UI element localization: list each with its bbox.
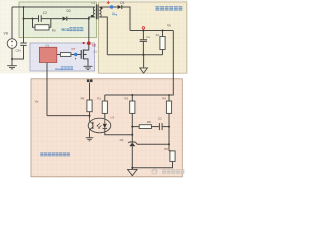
svg-text:R0: R0 [52,29,56,33]
wire U1 to R7 [57,54,61,56]
resistor R4 [162,97,171,114]
node red dot at drain [87,41,91,45]
wire MOSFET source to ground [83,59,88,66]
capacitor C1 [158,116,162,130]
capacitor C0 [140,35,151,42]
svg-text:Vo: Vo [167,24,171,28]
wire RL top [162,31,164,37]
light arrows [97,123,102,128]
output section box (tan) [99,2,187,73]
svg-text:L1: L1 [92,1,96,5]
svg-text:RL: RL [156,33,160,37]
ground (MOSFET source, bar style) [84,66,93,69]
wire output top rail [130,30,173,32]
ground (opto emitter, bar style) [86,138,94,141]
wire R8 branch left [132,126,139,128]
svg-text:R4: R4 [162,97,166,101]
wire snubber horizontal [24,18,39,20]
wire D1 cathode to output top rail [122,7,130,31]
wire output ground stem [143,55,145,68]
svg-text:RCD: RCD [62,28,70,32]
resistor R7 (gate) [60,47,75,57]
wire C2 to D0 [41,18,62,20]
MOSFET Q1 [81,49,89,59]
schematic sheet background (cream grid) [0,0,188,74]
wire RL bottom [162,50,164,55]
probe red mark below gate [75,58,77,60]
resistor R0 [35,25,56,33]
RCD snubber section box (green) [19,2,97,38]
svg-text:R7: R7 [72,47,76,51]
svg-text:R1: R1 [97,97,101,101]
wire transformer secondary bottom to ground rail [99,17,107,55]
wire VS plus lead [11,7,13,39]
wire C0 bottom [142,42,144,55]
wire VS minus lead [11,48,13,59]
wire R1 top [104,95,106,101]
svg-text:R5: R5 [164,147,168,151]
watermark logo and text [152,169,185,174]
wire R4 bottom to R5 top [169,113,173,150]
svg-text:M1: M1 [92,44,97,48]
label 电源输出电路 [155,6,182,10]
wire R1 bottom to opto LED anode [104,113,106,118]
wire transformer primary bottom to MOSFET drain [89,17,95,50]
svg-text:C2: C2 [43,11,47,15]
wire R3 top [131,95,133,101]
wire bottom VS to CIN [12,46,24,59]
wire D2 anode down [131,146,133,168]
resistor R5 [164,147,175,161]
voltage probe (red) at output node [142,27,144,29]
wire R4 top [168,95,170,101]
svg-text:D1: D1 [120,1,124,5]
capacitor CIN [16,43,27,53]
wire output ground rail [107,54,162,56]
wire bottom ground stem [131,168,133,170]
wire R6 bottom to opto collector [89,112,91,119]
MOS drive section box (lavender) [30,43,95,71]
svg-text:R3: R3 [124,97,128,101]
transformer L1 [91,1,102,19]
wire CIN top to rail (snubber tap vertical) [23,7,25,43]
resistor RL [156,33,165,50]
net label above R6 [87,79,93,82]
voltage probe (blue dot) on secondary wire [110,5,113,8]
phototransistor [90,118,93,133]
label mos驱动电路 [55,66,73,71]
wire C1 to divider node [162,126,169,128]
svg-text:Vb: Vb [35,99,39,103]
wire top rail from VS to transformer primary [12,6,95,8]
feedback control section box (pink) [31,79,182,177]
label Io with arrow [112,11,117,15]
wire Vo feedback down to divider [169,31,173,96]
ground (input, bar style) [7,59,17,69]
wire Vb horizontal to opto [47,115,90,117]
svg-text:U1: U1 [45,43,49,47]
wire control box top rail [105,94,169,96]
label 电压反馈控制电路 [40,152,70,156]
resistor R1 [97,97,107,114]
ground (bottom, triangle) [128,169,138,175]
resistor R6 [81,97,93,112]
voltage source VS [4,32,17,49]
wire R0 right branch [49,19,51,28]
wire opto emitter to ground [89,133,91,138]
wire bottom ground link [132,161,172,167]
wire C0 top [142,31,144,40]
wire R6 top stub [89,83,91,101]
probe blue dot at gate [74,53,77,56]
wire R7 to MOSFET gate [71,54,81,56]
wire D0 to primary bottom node [67,18,89,20]
resistor R8 (compensation) [139,120,151,129]
ground (output, triangle) [140,68,148,73]
wire D2 ref to divider [135,142,169,144]
svg-text:mos: mos [55,67,62,71]
capacitor C2 [39,11,48,22]
svg-text:CIN: CIN [16,49,21,53]
wire opto LED cathode to D2 node [105,129,133,135]
wire transformer secondary top to D1 [99,6,117,8]
svg-text:R6: R6 [81,97,85,101]
LED [104,118,106,124]
IC U1 (controller) [39,43,56,62]
svg-text:Co: Co [146,35,150,39]
svg-text:R8: R8 [147,120,151,124]
diode D1 [118,1,125,9]
optocoupler U3 [88,116,114,133]
current probe (red) on secondary [107,1,109,4]
wire R8 to C1 [151,126,159,128]
wire R3 bottom to D2 cathode [131,113,133,142]
svg-text:VS: VS [4,32,9,36]
diode D0 [63,9,71,21]
svg-text:Io: Io [112,11,115,15]
label RCD吸收电路 [62,27,84,32]
svg-text:D2: D2 [120,138,124,142]
svg-text:Q1: Q1 [93,50,97,54]
svg-text:C1: C1 [158,116,162,120]
TL431 / zener D2 [120,138,136,147]
wire U1 feedback Vb down into control box [46,63,48,116]
resistor R3 [124,97,134,114]
grid overlay on sheet [0,0,188,74]
wire R0 left branch [33,19,36,28]
svg-text:D0: D0 [67,9,71,13]
svg-text:U3: U3 [110,116,114,120]
